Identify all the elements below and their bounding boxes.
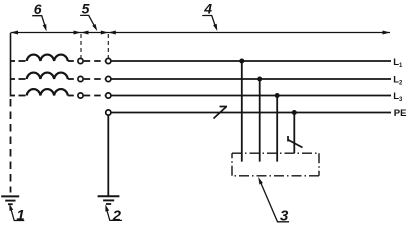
svg-text:L3: L3 (393, 91, 403, 103)
svg-text:L2: L2 (393, 75, 403, 87)
svg-text:L1: L1 (393, 57, 403, 69)
svg-text:1: 1 (16, 207, 24, 224)
svg-text:3: 3 (280, 207, 289, 224)
svg-text:PE: PE (394, 108, 407, 119)
svg-text:6: 6 (34, 1, 42, 17)
svg-text:4: 4 (203, 1, 212, 17)
svg-text:5: 5 (82, 1, 90, 17)
svg-text:2: 2 (112, 207, 122, 224)
